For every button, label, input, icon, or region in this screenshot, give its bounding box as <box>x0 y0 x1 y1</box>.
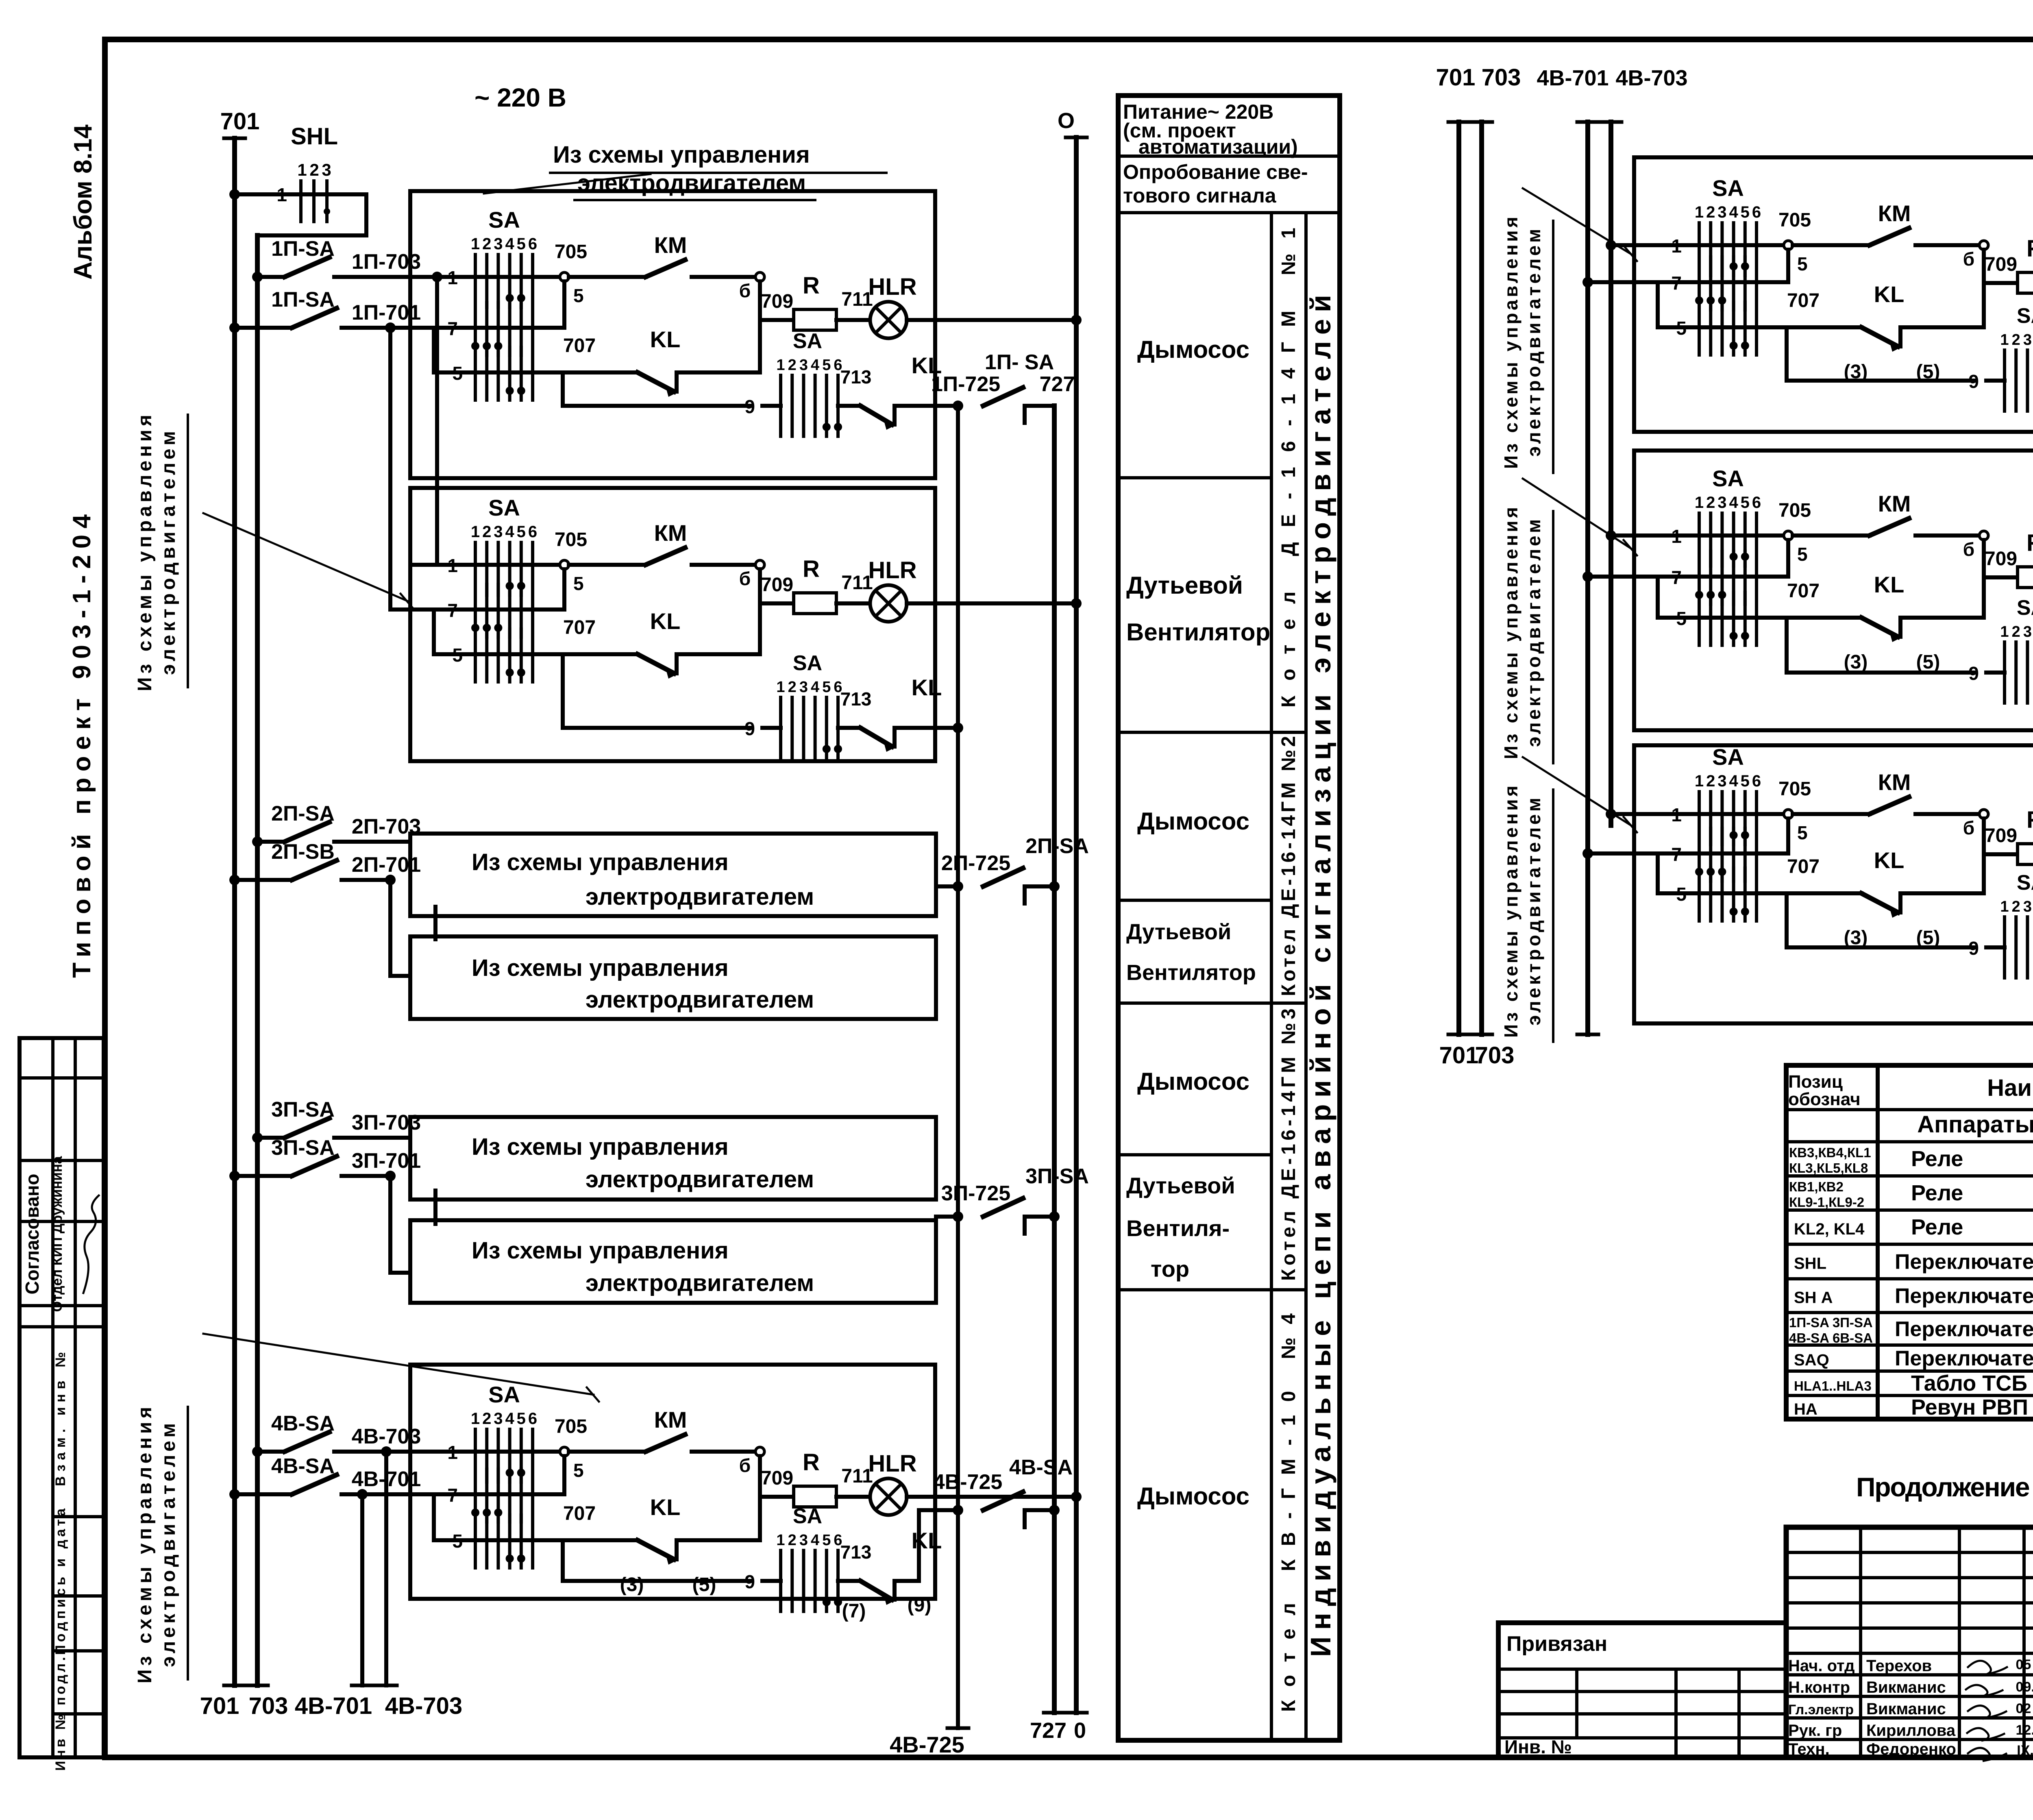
svg-text:R: R <box>2026 235 2033 262</box>
svg-text:6: 6 <box>528 1410 537 1428</box>
contact KL on wire 707 (Дымосос ДЕ-16-14ГМ №1) <box>638 327 760 397</box>
svg-text:1: 1 <box>471 235 480 253</box>
svg-text:Из схемы управления: Из схемы управления <box>1500 507 1521 759</box>
lamp HLR (Дутьевой вентилятор ДЕ-16-14ГМ №1) <box>868 557 935 622</box>
svg-text:1: 1 <box>1695 203 1704 221</box>
svg-text:3: 3 <box>799 357 808 374</box>
svg-text:2П-SB: 2П-SB <box>271 840 335 864</box>
svg-text:703: 703 <box>1482 64 1521 91</box>
leader line (Высоконапорный вентилятор КВ-ГМ-10) <box>1523 479 1637 555</box>
svg-text:Дутьевой: Дутьевой <box>1126 1173 1235 1198</box>
contact KL on wire row9 (Дымосос КВ-ГМ-10 №4) <box>860 1510 942 1616</box>
svg-text:705: 705 <box>555 529 587 551</box>
margin caption: Альбом 8.14 <box>69 124 97 280</box>
svg-text:(5): (5) <box>1916 651 1940 673</box>
svg-text:701: 701 <box>1436 64 1476 91</box>
svg-text:2П-SA: 2П-SA <box>271 802 335 825</box>
svg-text:05 83: 05 83 <box>2016 1657 2033 1672</box>
resistor R (Дымосос ДЕ-16-14ГМ №1) <box>760 272 873 330</box>
resistor R (Дутьевой вентилятор ДЕ-16-14ГМ №1) <box>760 556 873 614</box>
contact KL on wire 707 (Дутьевой вентилятор ДЕ-16-14ГМ №1) <box>638 608 760 679</box>
contact KL on wire 707 (Дутьевой вентилятор КВ-ГМ-10) <box>1844 281 1984 383</box>
block box Ротационная горелка КВ-ГМ-10 <box>1634 745 2033 1023</box>
svg-text:Вентиля-: Вентиля- <box>1126 1215 1230 1241</box>
wire bus 4В-703 to row1 (Дутьевой вентилятор КВ-ГМ-10) <box>1606 240 1634 250</box>
node б (Дутьевой вентилятор ДЕ-16-14ГМ №1) <box>739 560 764 654</box>
svg-text:HLR: HLR <box>868 557 916 583</box>
labels 4В-701 4В-703 bottom <box>295 1693 462 1719</box>
svg-text:1П-725: 1П-725 <box>931 372 1000 396</box>
svg-text:KL: KL <box>1874 572 1905 597</box>
svg-text:Из схемы управления: Из схемы управления <box>134 415 156 691</box>
svg-text:Наименование: Наименование <box>1987 1075 2033 1101</box>
svg-text:3: 3 <box>1717 203 1726 221</box>
svg-text:3: 3 <box>799 679 808 696</box>
svg-text:2: 2 <box>482 235 491 253</box>
svg-text:SA: SA <box>793 651 822 675</box>
svg-text:KL: KL <box>912 675 942 700</box>
svg-text:Табло ТСБ: Табло ТСБ <box>1911 1371 2027 1395</box>
middle table header Опробование светового сигнала <box>1123 161 1308 207</box>
switch SA row7 (Дымосос ДЕ-16-14ГМ №1) <box>410 303 564 372</box>
switch SA row5 and wire 707 (Дутьевой вентилятор КВ-ГМ-10) <box>1658 290 1861 355</box>
svg-text:Аппараты на щите КИП: Аппараты на щите КИП <box>1917 1111 2033 1138</box>
svg-text:5: 5 <box>1797 544 1808 565</box>
svg-text:(9): (9) <box>908 1594 932 1616</box>
svg-text:9: 9 <box>1968 371 1979 392</box>
component row HLA1..HLA3 <box>1794 1371 2033 1395</box>
svg-text:электродвигателем: электродвигателем <box>586 884 814 910</box>
note Из схемы управления электродвигателем (rotated, Дутьевой вентилятор КВ-ГМ-10) <box>1500 217 1553 473</box>
svg-text:2: 2 <box>1706 494 1715 512</box>
svg-text:(5): (5) <box>692 1574 716 1596</box>
node б (Дутьевой вентилятор КВ-ГМ-10) <box>1963 241 1988 327</box>
svg-text:SA: SA <box>488 495 520 520</box>
wire 1П-703 drop to block 2 row1 <box>432 272 442 565</box>
svg-text:SA: SA <box>1712 175 1744 201</box>
svg-text:5: 5 <box>822 1532 831 1549</box>
switch 3П-SA with wire 3П-701 <box>229 1136 421 1181</box>
node б (Дымосос ДЕ-16-14ГМ №1) <box>739 272 764 372</box>
component table frame <box>1786 1065 2033 1419</box>
note Из схемы управления электродвигателем (left, rotated, group 1) <box>134 415 188 691</box>
svg-text:Терехов: Терехов <box>1866 1657 1932 1675</box>
svg-text:3: 3 <box>494 523 503 541</box>
svg-text:5: 5 <box>822 357 831 374</box>
link wire between 3П boxes <box>433 1191 438 1224</box>
svg-text:электродвигателем: электродвигателем <box>577 170 806 196</box>
note Из схемы управления электродвигателем (left, rotated, group 2) <box>134 1407 188 1683</box>
switch SA row1 (Дымосос КВ-ГМ-10 №4) <box>410 1382 564 1482</box>
svg-text:(3): (3) <box>620 1574 644 1596</box>
switch SA row1 (Дымосос ДЕ-16-14ГМ №1) <box>410 207 564 307</box>
svg-text:5: 5 <box>517 523 526 541</box>
svg-text:б: б <box>739 1455 751 1476</box>
sidebar signature scribble <box>83 1195 99 1293</box>
svg-text:707: 707 <box>563 335 596 357</box>
svg-text:R: R <box>2026 530 2033 556</box>
svg-text:1: 1 <box>471 1410 480 1428</box>
svg-text:Дымосос: Дымосос <box>1137 336 1249 363</box>
contact KL on wire 707 (Высоконапорный вентилятор КВ-ГМ-10) <box>1844 572 1984 673</box>
wire bus 4В-703 to row1 (Ротационная горелка КВ-ГМ-10) <box>1606 809 1634 819</box>
block box Дымосос ДЕ-16-14ГМ №1 <box>410 191 935 478</box>
svg-text:Привязан: Привязан <box>1506 1632 1607 1656</box>
contact KL on wire 707 (Дымосос КВ-ГМ-10 №4) <box>620 1494 760 1596</box>
svg-text:5: 5 <box>573 1460 584 1481</box>
wire row9 with SA ticks (Ротационная горелка КВ-ГМ-10) <box>1787 871 2033 988</box>
middle table header Питание 220В <box>1123 100 1298 158</box>
annex table Привязан <box>1498 1623 1786 1757</box>
contact KM (Дутьевой вентилятор КВ-ГМ-10) <box>1793 200 1979 245</box>
svg-text:R: R <box>803 556 820 582</box>
svg-text:KL2, KL4: KL2, KL4 <box>1794 1220 1865 1238</box>
svg-text:709: 709 <box>1985 548 2017 570</box>
svg-text:2П-SA: 2П-SA <box>1025 834 1089 858</box>
wire chain 725 (left half) <box>947 401 969 1728</box>
switch SA row5 and wire 707 (Ротационная горелка КВ-ГМ-10) <box>1658 856 1861 921</box>
wire 2П-701 jog into lower box <box>385 875 410 976</box>
svg-text:Кириллова: Кириллова <box>1866 1722 1956 1739</box>
svg-text:Позиц: Позиц <box>1788 1072 1843 1092</box>
svg-text:4: 4 <box>811 357 819 374</box>
svg-text:КМ: КМ <box>654 520 687 546</box>
svg-text:701: 701 <box>1439 1042 1479 1069</box>
label 0 bottom <box>1074 1718 1086 1743</box>
svg-text:HLA1..HLA3: HLA1..HLA3 <box>1794 1378 1872 1393</box>
middle table text Дымосос (row7) <box>1137 1483 1249 1510</box>
svg-text:Из схемы управления: Из схемы управления <box>472 1134 729 1160</box>
svg-text:2: 2 <box>2012 898 2020 915</box>
switch SHL ticks and wire <box>229 123 366 235</box>
svg-text:тор: тор <box>1151 1256 1189 1282</box>
svg-text:709: 709 <box>1985 825 2017 847</box>
sidebar text Отдел КИП Дружинина <box>50 1156 65 1312</box>
svg-text:SA: SA <box>793 1504 822 1528</box>
middle table text Дымосос (row3) <box>1137 808 1249 835</box>
svg-text:Рук. гр: Рук. гр <box>1788 1722 1842 1739</box>
svg-text:Альбом 8.14: Альбом 8.14 <box>69 124 97 280</box>
wire row9 with SA ticks (Высоконапорный вентилятор КВ-ГМ-10) <box>1787 596 2033 714</box>
svg-text:707: 707 <box>563 1503 596 1524</box>
switch 1П-SA with wire 1П-701 <box>229 288 421 333</box>
svg-text:SA: SA <box>793 329 822 353</box>
lamp HLR (Дымосос КВ-ГМ-10 №4) <box>868 1450 935 1515</box>
svg-text:5: 5 <box>1741 494 1750 512</box>
middle table text Дутьевой Вентилятор (row2) <box>1126 572 1270 646</box>
middle table text Дымосос (row1) <box>1137 336 1249 363</box>
contact 1П-SA on wire 725/727 <box>931 351 1075 423</box>
switch 4В-SA with wire 4В-701 <box>229 1454 421 1500</box>
svg-text:(3): (3) <box>1844 651 1868 673</box>
svg-text:SA: SA <box>488 1382 520 1407</box>
svg-text:Реле: Реле <box>1911 1215 1963 1239</box>
contact 4В-SA on wire 725/727 <box>933 1456 1073 1527</box>
bus 703 (right) <box>1471 122 1492 1034</box>
annex text Привязан <box>1506 1632 1607 1656</box>
component row SH А <box>1794 1284 2033 1308</box>
svg-text:R: R <box>803 1449 820 1476</box>
component row KL2, KL4 <box>1794 1213 2033 1247</box>
svg-text:4В-SA: 4В-SA <box>271 1454 335 1478</box>
svg-text:KL: KL <box>1874 281 1905 307</box>
switch SA row5 and wire 707 (Дымосос ДЕ-16-14ГМ №1) <box>434 335 638 400</box>
title block frame <box>1786 1527 2033 1757</box>
bus 701 (left) <box>224 138 245 1685</box>
svg-text:обознач: обознач <box>1788 1089 1861 1109</box>
svg-text:Н.контр: Н.контр <box>1788 1678 1850 1696</box>
middle table text Дутьевой Вентиля-тор (row6) <box>1126 1173 1235 1282</box>
svg-text:727: 727 <box>1030 1718 1067 1743</box>
bus 703 (left) <box>247 235 268 1685</box>
middle table frame <box>1118 96 1340 1740</box>
node 705 (Ротационная горелка КВ-ГМ-10) <box>1778 778 1811 853</box>
svg-text:2: 2 <box>1706 772 1715 790</box>
block box Высоконапорный вентилятор КВ-ГМ-10 <box>1634 451 2033 730</box>
note Из схемы управления электродвигателем (rotated, Высоконапорный вентилятор КВ-ГМ-10) <box>1500 507 1553 763</box>
middle table rotated Индивидуальные цепи аварийной сигнализации электродвигателей <box>1305 295 1336 1657</box>
middle table rotated Котел ДЕ-16-14ГМ №3 <box>1278 1008 1299 1281</box>
svg-text:6: 6 <box>1752 772 1761 790</box>
node 705 (Дымосос ДЕ-16-14ГМ №1) <box>555 241 587 328</box>
switch SA row5 and wire 707 (Высоконапорный вентилятор КВ-ГМ-10) <box>1658 580 1861 645</box>
svg-text:4В-SA 6В-SA: 4В-SA 6В-SA <box>1789 1330 1873 1345</box>
sidebar text Инв № подл. <box>53 1657 68 1771</box>
wire row9 with SA ticks (Дымосос ДЕ-16-14ГМ №1) <box>563 329 871 436</box>
switch 2П-SB with wire 2П-701 <box>229 840 421 885</box>
svg-text:4В-703: 4В-703 <box>1615 66 1687 90</box>
bus 0 (left half) <box>1066 137 1087 1713</box>
switch SA row7 (Ротационная горелка КВ-ГМ-10) <box>1634 828 1788 893</box>
svg-text:KL: KL <box>1874 847 1905 873</box>
svg-text:1: 1 <box>2000 623 2009 640</box>
svg-text:705: 705 <box>1778 778 1811 800</box>
lamp HLR (Дымосос ДЕ-16-14ГМ №1) <box>868 274 935 338</box>
link wire between 2П boxes <box>433 907 438 939</box>
contact KM (Дутьевой вентилятор ДЕ-16-14ГМ №1) <box>569 520 755 565</box>
svg-text:3: 3 <box>322 160 331 179</box>
svg-text:Переключатель ПМОФ45-111777/ I: Переключатель ПМОФ45-111777/ II -Д6 <box>1895 1347 2033 1370</box>
title block signature rows <box>1788 1657 1956 1758</box>
switch SA row1 (Ротационная горелка КВ-ГМ-10) <box>1634 744 1788 845</box>
svg-text:Согласовано: Согласовано <box>22 1174 43 1295</box>
switch SA row7 (Дутьевой вентилятор ДЕ-16-14ГМ №1) <box>410 584 564 654</box>
box Из схемы управления электродвигателем (2П lower) <box>410 936 936 1019</box>
svg-text:2: 2 <box>482 1410 491 1428</box>
title block signature scribbles and dates <box>1966 1657 2033 1761</box>
svg-text:1: 1 <box>2000 331 2009 348</box>
svg-text:Федоренко: Федоренко <box>1866 1740 1956 1758</box>
svg-text:(7): (7) <box>842 1600 866 1622</box>
svg-text:1: 1 <box>1695 494 1704 512</box>
svg-text:SA: SA <box>1712 744 1744 770</box>
block box Дутьевой вентилятор ДЕ-16-14ГМ №1 <box>410 488 935 761</box>
label 701 top <box>220 108 260 135</box>
svg-text:б: б <box>1963 248 1974 270</box>
label 4В-725 bottom <box>890 1732 964 1757</box>
sidebar text Подпись и дата <box>53 1508 68 1655</box>
sidebar text Взам. инв № <box>53 1352 68 1486</box>
svg-text:4: 4 <box>1729 772 1738 790</box>
wire lamp row block 4В to bus 0 <box>935 1491 1082 1502</box>
resistor R (Дымосос КВ-ГМ-10 №4) <box>760 1449 873 1507</box>
label О top <box>1058 109 1075 133</box>
svg-text:3П-SA: 3П-SA <box>1025 1165 1089 1188</box>
svg-text:4В-725: 4В-725 <box>890 1732 964 1757</box>
svg-text:Из схемы управления: Из схемы управления <box>472 955 729 981</box>
svg-text:SA: SA <box>2017 871 2033 895</box>
svg-text:3: 3 <box>2023 331 2032 348</box>
svg-text:Индивидуальные цепи аварий: Индивидуальные цепи аварийной сигнализац… <box>1305 295 1336 1657</box>
svg-text:HLR: HLR <box>868 1450 916 1477</box>
svg-text:1П-SA: 1П-SA <box>271 237 335 261</box>
svg-text:709: 709 <box>761 574 793 596</box>
middle table rotated Котел ДЕ-16-14ГМ №1 <box>1278 228 1299 708</box>
svg-text:б: б <box>1963 817 1974 838</box>
svg-text:3: 3 <box>494 235 503 253</box>
svg-text:4: 4 <box>505 523 514 541</box>
svg-text:4: 4 <box>1729 494 1738 512</box>
svg-text:5: 5 <box>573 285 584 306</box>
box Из схемы управления электродвигателем (3П upper) <box>410 1117 936 1200</box>
svg-text:R: R <box>803 272 820 299</box>
svg-text:1: 1 <box>471 523 480 541</box>
svg-text:~ 220 В: ~ 220 В <box>475 83 566 112</box>
svg-text:SHL: SHL <box>291 123 338 150</box>
svg-text:КМ: КМ <box>654 232 687 258</box>
svg-text:электродвигателем: электродвигателем <box>158 431 179 675</box>
component row НА <box>1794 1395 2033 1419</box>
wire 4В-703 drop to bottom cap <box>376 1446 397 1685</box>
svg-text:электродвигателем: электродвигателем <box>158 1423 179 1667</box>
svg-text:НА: НА <box>1794 1400 1818 1418</box>
svg-text:Ревун РВП: Ревун РВП <box>1911 1395 2028 1419</box>
svg-text:5: 5 <box>1797 253 1808 274</box>
svg-text:4В-725: 4В-725 <box>933 1470 1003 1494</box>
annex text Инв. № <box>1504 1736 1572 1757</box>
node 705 (Дымосос КВ-ГМ-10 №4) <box>555 1416 587 1494</box>
svg-text:705: 705 <box>1778 500 1811 521</box>
svg-text:КМ: КМ <box>654 1407 687 1432</box>
svg-text:КВ3,КВ4,КL1: КВ3,КВ4,КL1 <box>1789 1145 1871 1160</box>
svg-text:SA: SA <box>1712 466 1744 491</box>
wire bus 4В-701 to row7 (Ротационная горелка КВ-ГМ-10) <box>1582 848 1634 859</box>
box Из схемы управления электродвигателем (2П upper) <box>410 834 936 916</box>
wire bus 4В-703 to row1 (Высоконапорный вентилятор КВ-ГМ-10) <box>1606 530 1634 541</box>
svg-text:Дымосос: Дымосос <box>1137 1483 1249 1510</box>
svg-text:4: 4 <box>1729 203 1738 221</box>
svg-text:3: 3 <box>799 1532 808 1549</box>
svg-text:709: 709 <box>1985 254 2017 275</box>
svg-text:5: 5 <box>573 573 584 594</box>
svg-text:1: 1 <box>297 160 307 179</box>
svg-text:2: 2 <box>482 523 491 541</box>
block box Дутьевой вентилятор КВ-ГМ-10 <box>1634 157 2033 432</box>
svg-text:3: 3 <box>1717 494 1726 512</box>
block box Дымосос КВ-ГМ-10 №4 <box>410 1365 935 1599</box>
svg-text:4: 4 <box>505 235 514 253</box>
svg-text:4В-701: 4В-701 <box>295 1693 372 1719</box>
svg-text:электродвигателем: электродвигателем <box>586 986 814 1013</box>
node 705 (Высоконапорный вентилятор КВ-ГМ-10) <box>1778 500 1811 577</box>
svg-text:713: 713 <box>840 1541 872 1563</box>
resistor R (Ротационная горелка КВ-ГМ-10) <box>1984 807 2033 864</box>
svg-text:707: 707 <box>1787 856 1820 877</box>
contact KM (Дымосос ДЕ-16-14ГМ №1) <box>569 232 755 277</box>
svg-text:SA: SA <box>2017 596 2033 620</box>
svg-text:Дымосос: Дымосос <box>1137 808 1249 835</box>
svg-text:КМ: КМ <box>1878 491 1911 516</box>
svg-text:KL: KL <box>650 608 681 634</box>
svg-text:Вентилятор: Вентилятор <box>1126 960 1256 985</box>
svg-text:1: 1 <box>776 679 785 696</box>
svg-text:5: 5 <box>1741 203 1750 221</box>
svg-text:Из схемы управления: Из схемы управления <box>1500 217 1521 469</box>
wire 3П-701 jog into lower box <box>385 1171 410 1273</box>
svg-text:1П-SA 3П-SA: 1П-SA 3П-SA <box>1789 1315 1873 1330</box>
svg-text:2: 2 <box>309 160 319 179</box>
svg-text:R: R <box>2026 807 2033 833</box>
svg-text:SA: SA <box>2017 304 2033 328</box>
contact KL on wire row9 (Дымосос ДЕ-16-14ГМ №1) <box>860 353 942 430</box>
wire block2 row9 to 725 chain <box>935 723 963 733</box>
svg-text:б: б <box>739 568 751 589</box>
switch 3П-SA with wire 3П-703 <box>252 1098 421 1143</box>
svg-text:4: 4 <box>811 679 819 696</box>
svg-text:KL: KL <box>650 1494 681 1520</box>
svg-text:9: 9 <box>744 1571 755 1592</box>
svg-text:713: 713 <box>840 688 872 710</box>
svg-text:2: 2 <box>1706 203 1715 221</box>
wire row9 with SA ticks (Дутьевой вентилятор ДЕ-16-14ГМ №1) <box>563 651 871 758</box>
svg-text:Опробование све-: Опробование све- <box>1123 161 1308 183</box>
switch SA row5 and wire 707 (Дутьевой вентилятор ДЕ-16-14ГМ №1) <box>434 617 638 682</box>
bus 701 (right) <box>1448 122 1469 1034</box>
svg-text:701: 701 <box>200 1693 239 1719</box>
svg-text:3: 3 <box>1717 772 1726 790</box>
svg-text:2: 2 <box>788 1532 797 1549</box>
svg-text:Из схемы управления: Из схемы управления <box>553 142 810 168</box>
wire bus 4В-701 to row7 (Высоконапорный вентилятор КВ-ГМ-10) <box>1582 571 1634 582</box>
svg-text:1: 1 <box>776 357 785 374</box>
svg-text:КМ: КМ <box>1878 769 1911 795</box>
node 705 (Дутьевой вентилятор ДЕ-16-14ГМ №1) <box>555 529 587 610</box>
labels 701 703 bottom (right) <box>1439 1042 1515 1069</box>
svg-text:Переключатель ПМОФ 45-222222 /: Переключатель ПМОФ 45-222222 / II -Д9 <box>1895 1250 2033 1274</box>
wire 1П-701 drop to block 2 row7 <box>385 322 410 610</box>
svg-text:б: б <box>739 280 751 301</box>
svg-text:4В-703: 4В-703 <box>385 1693 462 1719</box>
svg-text:SHL: SHL <box>1794 1255 1826 1273</box>
node б (Дымосос КВ-ГМ-10 №4) <box>739 1447 764 1540</box>
svg-text:2: 2 <box>2012 331 2020 348</box>
resistor R (Высоконапорный вентилятор КВ-ГМ-10) <box>1984 530 2033 588</box>
svg-text:SA: SA <box>488 207 520 233</box>
svg-text:6: 6 <box>1752 494 1761 512</box>
switch SA row1 (Дутьевой вентилятор ДЕ-16-14ГМ №1) <box>410 495 564 595</box>
svg-text:автоматизации): автоматизации) <box>1138 135 1298 158</box>
component row SHL <box>1794 1250 2033 1274</box>
svg-text:3П-SA: 3П-SA <box>271 1136 335 1160</box>
wire lamp row block2 to bus 0 <box>935 598 1082 609</box>
svg-text:709: 709 <box>761 291 793 312</box>
resistor R (Дутьевой вентилятор КВ-ГМ-10) <box>1984 235 2033 293</box>
component table band Аппараты на щите КИП <box>1917 1111 2033 1138</box>
svg-text:713: 713 <box>840 366 872 388</box>
svg-text:4В-SA: 4В-SA <box>1009 1456 1073 1479</box>
component row КВ1,КВ2 КL9-1,КL9-2 <box>1789 1179 2033 1214</box>
svg-text:2: 2 <box>788 679 797 696</box>
